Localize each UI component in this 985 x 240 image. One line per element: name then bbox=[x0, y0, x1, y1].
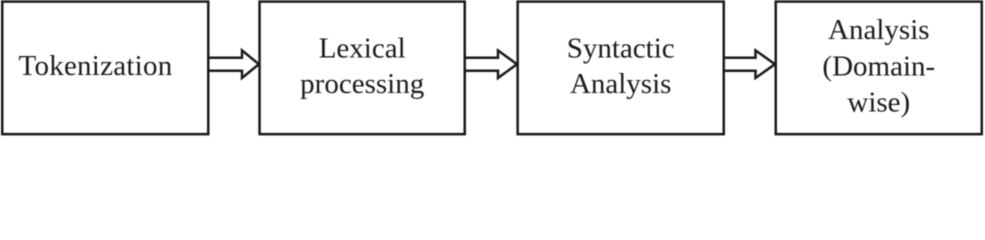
svg-text:(Domain-: (Domain- bbox=[822, 51, 935, 83]
arrow 1 (Tokenization to Lexical processing) bbox=[208, 50, 259, 78]
box 3: Syntactic Analysis bbox=[518, 2, 724, 135]
svg-text:wise): wise) bbox=[847, 87, 910, 119]
svg-text:Analysis: Analysis bbox=[828, 14, 930, 46]
svg-text:Syntactic: Syntactic bbox=[567, 32, 675, 64]
arrow 2 (Lexical processing to Syntactic Analysis) bbox=[464, 50, 517, 78]
svg-text:Analysis: Analysis bbox=[570, 68, 672, 100]
arrow 3 (Syntactic Analysis to Analysis Domain-wise) bbox=[722, 50, 775, 78]
svg-text:Tokenization: Tokenization bbox=[19, 50, 173, 82]
svg-text:Lexical: Lexical bbox=[319, 32, 406, 64]
box 1: Tokenization bbox=[2, 2, 208, 135]
svg-text:processing: processing bbox=[300, 68, 424, 100]
box 2: Lexical processing bbox=[260, 2, 465, 135]
box 4: Analysis (Domain-wise) bbox=[776, 2, 982, 135]
